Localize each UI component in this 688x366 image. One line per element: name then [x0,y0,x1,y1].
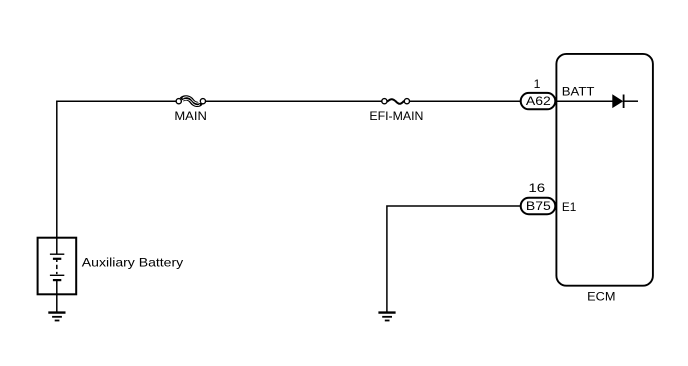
svg-text:ECM: ECM [587,290,615,304]
connector pin A62 [521,93,556,109]
wire: diode cathode stub [624,100,638,102]
wire: battery to ground [56,280,58,312]
svg-text:EFI-MAIN: EFI-MAIN [369,109,423,123]
wire: pin A62 to diode anode [556,100,613,102]
connector pin B75 [521,198,556,214]
wire: EFI-MAIN to pin A62 [410,100,521,102]
svg-text:A62: A62 [526,94,551,108]
pin number 1 [534,77,541,91]
net E1 [562,200,577,214]
ground (E1) [378,313,395,321]
net BATT [562,85,595,99]
wire: battery top to fusible link MAIN [57,101,176,238]
ground (battery) [48,313,65,321]
svg-text:B75: B75 [526,199,551,213]
svg-text:BATT: BATT [562,85,595,99]
label MAIN [174,109,207,123]
svg-text:MAIN: MAIN [174,109,207,123]
label EFI-MAIN [369,109,423,123]
svg-text:16: 16 [528,181,545,195]
fuse EFI-MAIN [382,99,410,104]
ECM module box [556,54,653,286]
battery box (Auxiliary Battery) [38,238,77,295]
svg-text:Auxiliary Battery: Auxiliary Battery [82,256,184,270]
pin number 16 [528,181,545,195]
wire: MAIN to EFI-MAIN [206,100,382,102]
wire: pin B75 to ground [387,206,521,312]
battery cells [50,238,64,280]
label ECM [587,290,615,304]
label Auxiliary Battery [82,256,184,270]
svg-text:E1: E1 [562,200,577,214]
fusible link MAIN [176,97,205,106]
diode D1 [613,95,624,109]
svg-text:1: 1 [534,77,541,91]
